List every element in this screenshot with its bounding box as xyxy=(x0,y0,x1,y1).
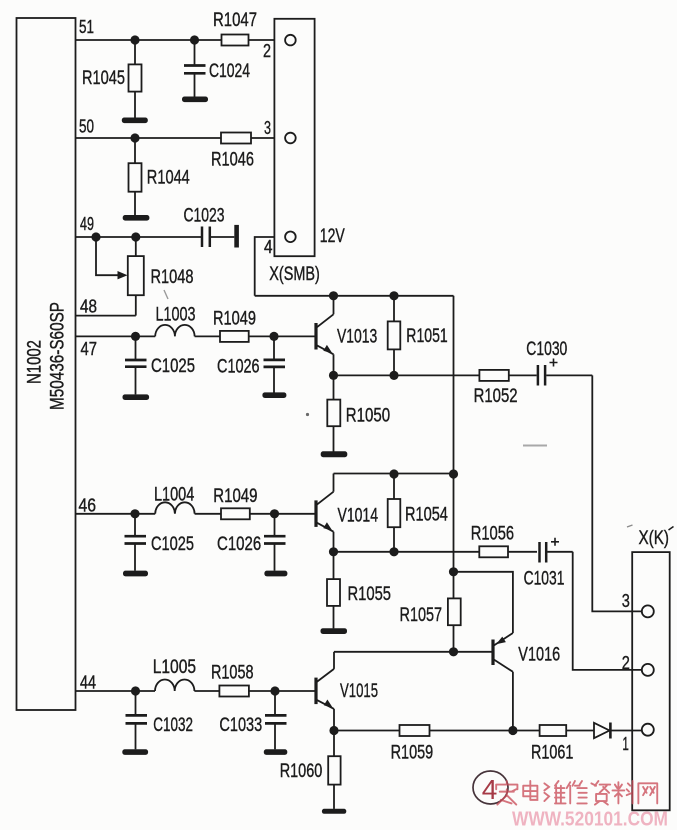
svg-text:R1061: R1061 xyxy=(531,742,573,764)
wire R1061 to diode xyxy=(566,730,594,732)
stray dot left of R1050 xyxy=(306,413,309,416)
wire V1014 collector rail xyxy=(334,473,454,475)
node junction 49-wiper xyxy=(91,232,100,241)
diode V1062 xyxy=(594,723,610,739)
resistor R1060 xyxy=(280,731,341,809)
wire V1016 emitter link xyxy=(454,572,513,633)
resistor R1052 xyxy=(474,370,537,407)
resistor R1045 xyxy=(82,40,142,118)
svg-text:47: 47 xyxy=(81,338,98,359)
svg-text:L1003: L1003 xyxy=(156,304,196,326)
node junction 44-C1032 xyxy=(131,686,140,695)
svg-text:R1047: R1047 xyxy=(213,9,257,31)
wire R1049b to V1014 base xyxy=(250,513,316,515)
wire V1015 emitter row xyxy=(334,730,400,732)
node emitter-R1050 xyxy=(329,371,338,380)
svg-text:46: 46 xyxy=(79,495,97,516)
svg-text:N1002: N1002 xyxy=(24,340,45,384)
node junction 44-C1033 xyxy=(270,686,279,695)
wire pin49 row xyxy=(76,236,202,238)
svg-text:C1031: C1031 xyxy=(524,568,565,590)
node emitter-R1051 xyxy=(389,371,398,380)
resistor R1044 xyxy=(129,138,190,215)
svg-text:R1054: R1054 xyxy=(405,504,448,526)
svg-text:4: 4 xyxy=(482,774,498,805)
svg-text:R1046: R1046 xyxy=(211,149,254,171)
svg-text:C1026: C1026 xyxy=(217,356,260,378)
ground under C1032 xyxy=(122,749,148,755)
ground under C1026 xyxy=(262,392,286,398)
svg-text:R1057: R1057 xyxy=(400,604,443,626)
resistor R1051 xyxy=(388,296,448,376)
wire V1014 emitter row xyxy=(334,551,480,553)
wire R1049 to V1013 base xyxy=(249,335,316,337)
node junction 51-C1024 xyxy=(190,35,199,44)
node V1016 collector junction xyxy=(508,726,517,735)
resistor R1047 xyxy=(213,9,257,46)
svg-text:R1060: R1060 xyxy=(280,760,323,782)
resistor R1056 xyxy=(471,523,537,558)
node emitter-R1060 xyxy=(329,726,338,735)
svg-text:C1026: C1026 xyxy=(217,533,261,555)
wire pin51 row xyxy=(76,39,222,41)
svg-text:R1048: R1048 xyxy=(151,266,194,288)
svg-text:L1005: L1005 xyxy=(153,656,197,678)
resistor R1061 xyxy=(531,725,573,764)
node junction 47-C1025 xyxy=(131,332,140,341)
resistor R1049 xyxy=(213,308,256,342)
svg-text:L1004: L1004 xyxy=(154,484,194,506)
transistor V1013 xyxy=(316,296,377,376)
wire pin46 row xyxy=(76,513,156,515)
svg-text:M50436-S60SP: M50436-S60SP xyxy=(48,302,69,410)
svg-text:R1049: R1049 xyxy=(213,485,257,507)
resistor R1050 xyxy=(327,375,390,451)
svg-text:R1058: R1058 xyxy=(211,662,254,684)
wire R1059 to R1061 xyxy=(430,730,540,732)
wire pin44 row xyxy=(76,690,156,692)
ground under C1026 second xyxy=(264,571,287,577)
node rail-R1051 xyxy=(389,291,398,300)
svg-text:R1045: R1045 xyxy=(82,67,125,89)
svg-text:R1052: R1052 xyxy=(474,385,518,407)
svg-text:V1016: V1016 xyxy=(518,644,560,666)
wire C1023 to pin4 and supply xyxy=(255,237,286,296)
wire pin50 row xyxy=(76,137,222,139)
resistor R1049 second xyxy=(213,485,257,519)
wire L1003 to R1049 xyxy=(195,335,220,337)
wire V1015 collector rail xyxy=(334,651,454,653)
capacitor C1025 xyxy=(125,336,195,394)
ground under R1044 xyxy=(123,215,150,221)
wire R1047 to pin2 xyxy=(249,39,286,41)
wire pin48 row xyxy=(76,315,136,317)
wire L1005 to R1058 xyxy=(194,690,219,692)
svg-text:C1033: C1033 xyxy=(219,714,262,736)
svg-text:R1049: R1049 xyxy=(213,308,256,330)
capacitor C1032 xyxy=(126,691,194,749)
svg-text:R1044: R1044 xyxy=(147,167,190,189)
stray mark under R1048 label xyxy=(164,290,168,299)
wire supply vertical xyxy=(453,296,455,474)
ground under R1055 xyxy=(321,628,348,634)
pin 2 circle X(SMB) xyxy=(263,35,296,61)
transistor V1015 xyxy=(316,652,378,731)
page number circle 4 xyxy=(473,771,508,805)
ground under C1024 xyxy=(182,97,208,103)
ground under R1045 xyxy=(122,118,148,124)
capacitor C1023 xyxy=(184,205,239,248)
svg-text:R1055: R1055 xyxy=(348,583,392,605)
svg-text:C1023: C1023 xyxy=(184,205,225,227)
svg-text:2: 2 xyxy=(622,652,630,673)
ground under C1025 xyxy=(123,394,150,400)
IC N1002 block xyxy=(17,18,76,710)
svg-text:48: 48 xyxy=(80,296,97,317)
capacitor C1025 second xyxy=(125,514,195,571)
pin 1 circle X(K) xyxy=(622,724,653,754)
svg-text:R1056: R1056 xyxy=(471,523,514,545)
svg-text:V1014: V1014 xyxy=(338,505,379,527)
svg-text:C1025: C1025 xyxy=(151,355,195,377)
wire C1031 to X(K) pin2 xyxy=(573,552,642,670)
wire R1046 to pin3 xyxy=(251,137,285,139)
connector X(K) xyxy=(632,527,673,811)
transistor V1016 xyxy=(493,633,560,731)
node rail-R1054 xyxy=(389,469,398,478)
pin 3 circle X(SMB) xyxy=(264,117,296,143)
node rail-R1057 bottom xyxy=(449,647,458,656)
capacitor C1031 xyxy=(524,538,573,590)
svg-text:WWW.520101.COM: WWW.520101.COM xyxy=(512,808,668,830)
wiper arrow of R1048 xyxy=(96,237,128,279)
svg-text:2: 2 xyxy=(263,40,271,61)
svg-text:12V: 12V xyxy=(320,225,345,247)
resistor R1054 xyxy=(388,474,448,552)
node V1016 emitter junction xyxy=(449,567,458,576)
ground under R1060 xyxy=(322,809,346,814)
svg-text:V1015: V1015 xyxy=(340,680,378,702)
stray scan dash above R1056 xyxy=(523,445,547,447)
pin 2 circle X(K) xyxy=(622,652,654,676)
svg-text:4: 4 xyxy=(264,236,273,257)
watermark chinese characters xyxy=(496,781,657,805)
svg-text:V1013: V1013 xyxy=(337,326,377,348)
transistor V1014 xyxy=(316,474,378,553)
resistor R1059 xyxy=(391,725,434,764)
ground under C1025 second xyxy=(123,571,148,577)
svg-text:C1025: C1025 xyxy=(151,533,194,555)
wire supply rail xyxy=(255,295,454,297)
node emitter-R1054 xyxy=(389,547,398,556)
connector X(SMB) xyxy=(269,19,320,285)
ground under C1033 xyxy=(264,749,288,755)
inductor L1004 xyxy=(154,484,195,514)
wire rail V1014 to V1016 emitter junction xyxy=(453,474,455,572)
svg-text:3: 3 xyxy=(264,117,271,138)
node emitter-R1055 xyxy=(329,547,338,556)
stray scan tick above X(K) xyxy=(627,525,633,527)
resistor R1058 xyxy=(211,662,254,697)
svg-text:44: 44 xyxy=(80,672,96,693)
node junction 51-R1045 xyxy=(130,35,139,44)
wire pin47 row xyxy=(76,335,156,337)
capacitor C1024 xyxy=(184,40,250,97)
svg-text:R1059: R1059 xyxy=(391,742,434,764)
svg-text:C1024: C1024 xyxy=(209,60,250,82)
capacitor C1026 second xyxy=(217,514,286,571)
resistor R1057 xyxy=(400,572,461,652)
svg-text:R1050: R1050 xyxy=(346,405,390,427)
svg-text:X(SMB): X(SMB) xyxy=(269,263,320,285)
node junction 49-R1048 xyxy=(131,232,140,241)
svg-text:C1032: C1032 xyxy=(153,714,193,736)
inductor L1003 xyxy=(155,304,195,337)
wire C1030 to X(K) pin3 xyxy=(592,375,642,611)
svg-text:1: 1 xyxy=(622,733,629,754)
svg-text:50: 50 xyxy=(79,116,94,137)
pin 4 circle X(SMB) xyxy=(264,232,296,258)
svg-text:49: 49 xyxy=(80,213,94,234)
wire V1013 emitter row xyxy=(334,374,480,376)
node rail-supply vertical xyxy=(449,469,458,478)
svg-text:51: 51 xyxy=(79,16,94,37)
capacitor C1033 xyxy=(219,691,286,749)
svg-text:3: 3 xyxy=(622,590,630,611)
node junction 47-C1026 xyxy=(269,332,278,341)
resistor R1055 xyxy=(327,552,391,629)
potentiometer R1048 xyxy=(128,237,194,316)
inductor L1005 xyxy=(153,656,197,691)
svg-text:X(K): X(K) xyxy=(639,528,670,549)
capacitor C1026 xyxy=(217,336,285,392)
svg-text:R1051: R1051 xyxy=(406,325,447,347)
node junction 46-C1026b xyxy=(270,509,279,518)
resistor R1046 xyxy=(211,133,254,171)
svg-text:C1030: C1030 xyxy=(526,338,567,360)
capacitor C1030 xyxy=(526,338,592,386)
wire diode to X(K) pin1 xyxy=(612,730,642,732)
pin 3 circle X(K) xyxy=(622,590,654,617)
wire V1016 base link xyxy=(454,651,494,653)
node junction 46-C1025b xyxy=(130,509,139,518)
node junction 50-R1044 xyxy=(130,133,139,142)
wire R1058 to V1015 base xyxy=(249,690,316,692)
wire L1004 to R1049b xyxy=(195,513,221,515)
ground under R1050 xyxy=(321,451,348,457)
node rail-V1013 collector xyxy=(329,291,338,300)
